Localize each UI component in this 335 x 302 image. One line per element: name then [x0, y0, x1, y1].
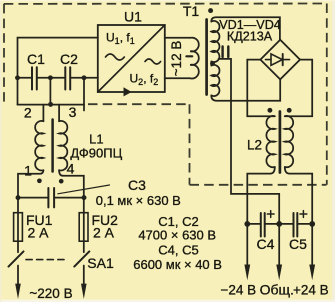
label +24 V [293, 283, 329, 298]
label C2 [60, 51, 78, 67]
svg-text:U1: U1 [124, 9, 142, 25]
L1 right winding with stub [59, 105, 67, 171]
module boundary (dashed frame) [4, 4, 327, 185]
transformer T1 secondary winding upper half [211, 21, 219, 62]
label U1 [124, 9, 142, 25]
pin 4 [67, 161, 75, 177]
phase dot T1 secondary centre tap [210, 61, 215, 66]
svg-text:КД213А: КД213А [227, 30, 273, 44]
transformer T1 core [205, 20, 208, 95]
svg-text:2 А: 2 А [93, 225, 115, 241]
transformer T1 primary winding [190, 38, 199, 79]
label DF90PC [70, 146, 122, 161]
svg-text:ДФ90ПЦ: ДФ90ПЦ [70, 146, 122, 161]
transformer T1 secondary winding lower half [211, 65, 219, 96]
winding II mark [223, 47, 229, 58]
svg-text:C5: C5 [289, 236, 307, 252]
wire: U1 to T1 primary bottom [165, 77, 190, 79]
wire: L1 pin4 down to fuse FU2 [59, 170, 84, 252]
svg-text:C2: C2 [60, 51, 78, 67]
svg-text:4700 × 630 В: 4700 × 630 В [138, 228, 216, 243]
phase dot L1 right [59, 179, 64, 184]
energy flow arrow on U1 [124, 87, 132, 96]
polarity plus of C5 [300, 211, 307, 218]
wire: L2 right to plus rail [285, 167, 312, 224]
switch SA1 right pole [74, 251, 89, 266]
phase dot L2 left [267, 108, 272, 113]
svg-text:C1: C1 [27, 51, 45, 67]
AC tilde input side [106, 54, 125, 60]
value C3 0.1uF 630V [96, 193, 181, 208]
choke L2 right winding [285, 116, 293, 167]
svg-text:2: 2 [24, 105, 32, 121]
fuse FU2 [79, 213, 88, 242]
label ~220 V [29, 286, 72, 301]
svg-text:Общ.: Общ. [260, 282, 294, 298]
switch SA1 mechanical link [26, 259, 68, 261]
pin 3 [69, 104, 77, 120]
label ~12 V (rotated) [169, 41, 184, 77]
svg-text:1: 1 [24, 163, 32, 179]
wire: bridge minus to L2 left [247, 60, 274, 117]
svg-text:4: 4 [67, 161, 75, 177]
svg-text:~220 В: ~220 В [29, 286, 72, 301]
output bus wires [247, 223, 312, 225]
output plus 24V arrow [309, 224, 315, 280]
winding I mark [186, 55, 192, 57]
label T1 [183, 3, 200, 19]
output minus 24V arrow [244, 224, 250, 280]
junction dot on terminal line [48, 102, 53, 107]
capacitor C2 [65, 67, 70, 89]
svg-text:SA1: SA1 [87, 255, 114, 271]
svg-text:T1: T1 [183, 3, 200, 19]
wire: right node drop [83, 78, 85, 111]
svg-text:C4, C5: C4, C5 [158, 243, 198, 258]
label C4 [257, 236, 275, 252]
label VD1-VD4 [219, 18, 281, 32]
label C1 [27, 51, 45, 67]
svg-text:3: 3 [69, 104, 77, 120]
junction dots on output bus [244, 221, 315, 227]
wire: C1-C2 midpoint drop [49, 78, 51, 105]
svg-text:−24 В: −24 В [220, 283, 256, 298]
label FU1 [26, 212, 53, 228]
capacitor C4 [261, 213, 265, 237]
svg-text:L2: L2 [247, 138, 262, 153]
wire: terminal line 2-3 [18, 104, 85, 106]
wire: bridge plus to L2 right [285, 60, 312, 117]
C3 callout line [58, 185, 110, 194]
capacitor C3 [48, 188, 54, 207]
diode bridge VD1-VD4 [260, 40, 300, 80]
diode symbol inside bridge [266, 54, 290, 65]
svg-text:0,1 мк × 630 В: 0,1 мк × 630 В [96, 193, 181, 208]
wire: secondary bottom to bridge AC2 [211, 80, 280, 101]
svg-text:6600 мк × 40 В: 6600 мк × 40 В [133, 257, 222, 272]
phase dot T1 secondary top [208, 8, 213, 13]
polarity plus of C4 [267, 211, 274, 218]
wire: secondary top to bridge AC1 [211, 17, 280, 40]
switch SA1 left pole [9, 251, 24, 266]
label C3 [128, 177, 146, 193]
label Common [260, 282, 294, 298]
wire: mains node A top wire to U1 [18, 38, 98, 105]
wire: C3 line [18, 197, 84, 199]
value 6600uF 40V [133, 257, 222, 272]
converter U1 box [98, 25, 165, 92]
wire: L1 pin1 down to fuse FU1 [18, 170, 43, 252]
svg-text:2 А: 2 А [28, 225, 50, 241]
wire: L2 left to minus rail [247, 167, 274, 224]
output common arrow [276, 224, 282, 280]
label L1 [89, 132, 103, 147]
value FU2 2A [93, 225, 115, 241]
junction dot C3 left [16, 195, 21, 200]
svg-text:+24 В: +24 В [293, 283, 329, 298]
fuse FU1 [14, 213, 23, 242]
label FU2 [92, 212, 119, 228]
value FU1 2A [28, 225, 50, 241]
label C5 [289, 236, 307, 252]
label L2 [247, 138, 262, 153]
capacitor C1 [32, 67, 37, 89]
label -24 V [220, 283, 256, 298]
svg-text:C4: C4 [257, 236, 275, 252]
choke L2 core [279, 112, 282, 173]
label U1,f1 [106, 31, 135, 47]
L1 left winding with stub [35, 105, 43, 171]
phase dot L1 left [37, 178, 42, 183]
wire: U1 to T1 primary top [165, 37, 190, 39]
label KD213A [227, 30, 273, 44]
AC tilde output side [145, 59, 161, 64]
capacitor C5 [294, 213, 298, 237]
pin 1 [24, 163, 32, 179]
value 4700x630V [138, 228, 216, 243]
pin 2 [24, 105, 32, 121]
svg-text:C3: C3 [128, 177, 146, 193]
mains input arrow right [81, 266, 87, 300]
filter choke L1 core [51, 120, 54, 172]
wire: centre tap rail to common [219, 59, 280, 224]
label U2,f2 [130, 72, 159, 88]
mains input arrow left [15, 266, 21, 300]
choke L2 left winding [266, 116, 274, 167]
junction dots on C1-C2 line [15, 75, 86, 80]
values C4 C5 [158, 243, 198, 258]
label SA1 [87, 255, 114, 271]
svg-text:L1: L1 [89, 132, 103, 147]
phase dot L2 right [287, 108, 292, 113]
svg-text:~12 В: ~12 В [169, 41, 184, 77]
values C1 C2 [158, 214, 198, 229]
junction dot C3 right [82, 195, 87, 200]
wire: C1-C2 line (node row) [18, 77, 98, 79]
